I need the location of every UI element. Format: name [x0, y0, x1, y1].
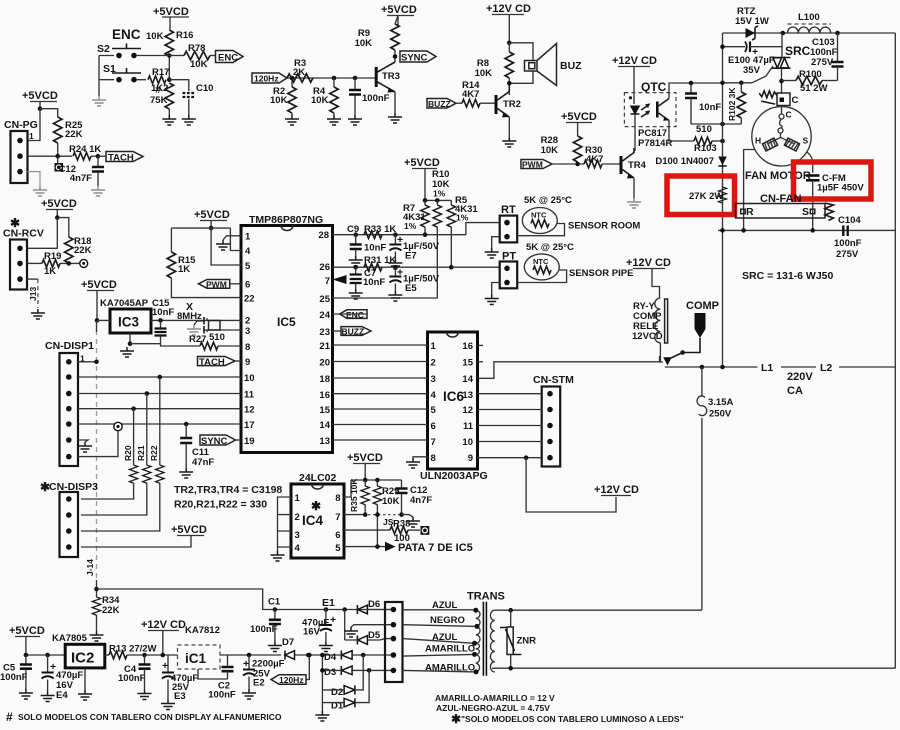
flag ENC (IC5 pin24): [333, 310, 368, 320]
svg-text:275V: 275V: [811, 57, 834, 68]
svg-text:12: 12: [462, 405, 473, 416]
svg-text:26: 26: [319, 262, 330, 273]
svg-text:100nF: 100nF: [250, 624, 278, 635]
capacitor E100 47uF 35V: [723, 42, 783, 77]
resistor R10 (middle): [333, 200, 442, 298]
resistor R2 10K: [270, 76, 296, 115]
svg-text:PATA 7 DE IC5: PATA 7 DE IC5: [398, 542, 473, 554]
test point square (below R25): [55, 156, 64, 171]
svg-text:1%: 1%: [404, 221, 417, 231]
svg-text:11: 11: [463, 421, 474, 432]
diode D100 1N4007 on rail: [655, 156, 726, 167]
ground (C11): [179, 468, 193, 478]
svg-text:R19: R19: [44, 251, 61, 262]
capacitor E7 1uF/50V: [389, 232, 439, 261]
svg-text:3: 3: [431, 374, 436, 385]
svg-text:5: 5: [335, 543, 341, 554]
node COMP wire: [680, 350, 685, 355]
resistor R31 1K: [364, 255, 396, 271]
svg-text:+5VCD: +5VCD: [404, 157, 440, 169]
svg-text:10: 10: [462, 437, 473, 448]
capacitor E5 1uF/50V: [389, 267, 439, 295]
capacitor C2 100nF: [208, 655, 236, 701]
svg-text:R: R: [746, 206, 754, 218]
power +5VCD (IC3): [81, 279, 117, 320]
power +12V CD (opto): [612, 55, 657, 104]
svg-text:19: 19: [244, 436, 255, 447]
+5 rail IC4: [344, 480, 402, 497]
resistor R102 3K (vertical): [727, 83, 746, 124]
right rail vertical: [894, 33, 896, 668]
svg-text:CN-RCV: CN-RCV: [3, 228, 44, 240]
wire row right of IC1: [220, 654, 281, 656]
svg-text:SYNC: SYNC: [201, 436, 228, 447]
ground (100nF): [348, 115, 362, 125]
svg-text:E3: E3: [174, 691, 186, 702]
flag TACH (IC5 pin9): [198, 357, 242, 368]
top rail wire: [723, 32, 896, 34]
LED inside opto: [631, 104, 649, 151]
svg-text:+12V CD: +12V CD: [626, 257, 671, 269]
svg-text:R35 10K: R35 10K: [349, 478, 359, 512]
ground (bridge pin2): [344, 627, 358, 637]
ground (IC5 pin1): [216, 240, 230, 250]
connector CN-FAN: [736, 204, 826, 219]
node +5VCD split: [38, 106, 43, 111]
ground (E2): [242, 689, 256, 699]
svg-text:KA7805: KA7805: [52, 633, 88, 644]
ground (CN-PG pin3): [33, 186, 47, 196]
capacitor C7 10nF: [350, 267, 386, 289]
speaker BUZ: [509, 43, 582, 86]
svg-text:1: 1: [29, 131, 34, 141]
svg-text:IC2: IC2: [71, 650, 94, 667]
svg-text:22K: 22K: [65, 129, 83, 140]
diode D5: [345, 630, 394, 645]
IC U3 box: [110, 309, 151, 333]
capacitor E1 470uF 16V: [302, 607, 336, 641]
svg-text:10nF: 10nF: [363, 277, 385, 288]
capacitor E2 2200uF 25V: [243, 653, 285, 689]
svg-text:1K: 1K: [44, 266, 56, 277]
svg-text:+5VCD: +5VCD: [194, 209, 230, 221]
svg-text:220V: 220V: [787, 371, 813, 383]
svg-text:+5VCD: +5VCD: [347, 452, 383, 464]
svg-text:100nF: 100nF: [0, 672, 28, 683]
svg-text:+5VCD: +5VCD: [381, 4, 417, 16]
connector CN-RCV: [10, 240, 27, 290]
svg-text:8: 8: [431, 453, 436, 464]
wire pin1 to column: [78, 361, 97, 363]
note # SOLO MODELOS: [6, 710, 282, 724]
resistor R17: [148, 67, 169, 94]
capacitor C12 (4n7F): [59, 156, 104, 186]
test point circle (row 17): [114, 422, 122, 430]
IC U4 box: [291, 484, 344, 558]
svg-text:L1: L1: [761, 362, 773, 374]
svg-text:4n7F: 4n7F: [70, 173, 92, 184]
ground (E3): [161, 700, 175, 710]
wire row pin5 (IC5 pin17): [78, 423, 241, 425]
svg-text:4n7F: 4n7F: [410, 495, 432, 506]
capacitor E3 470uF 25V: [162, 655, 198, 702]
svg-text:3: 3: [295, 530, 300, 541]
ground (IC4): [271, 551, 285, 561]
node C1: [273, 607, 278, 612]
svg-text:R22: R22: [149, 445, 159, 461]
fuse 3.15A 250V: [697, 367, 733, 610]
ground (TR4): [627, 198, 641, 208]
ground (switch rail): [92, 96, 106, 106]
node L100 left: [781, 31, 786, 36]
wire R16 to node: [168, 56, 170, 80]
connector CN-PG: [4, 119, 38, 183]
ground (E5): [388, 291, 402, 301]
ground (bridge): [321, 703, 323, 711]
wire 75K to ground: [168, 109, 170, 115]
svg-text:3.15A: 3.15A: [708, 397, 733, 408]
capacitor C5 100nF: [0, 655, 32, 689]
svg-text:D4: D4: [324, 652, 337, 663]
inductor L100: [788, 12, 832, 33]
ground (crystal): [187, 325, 201, 335]
ground (C10): [182, 115, 196, 125]
label CN-DISP3 with asterisk: [40, 480, 98, 494]
IC3 ground stem: [129, 333, 131, 345]
resistor R15 1K: [167, 252, 241, 298]
ground (C4): [138, 690, 152, 700]
capacitor 100nF (TR3 base): [349, 76, 390, 115]
flag 120Hz: [252, 73, 376, 84]
svg-text:R100: R100: [799, 69, 822, 80]
svg-text:1%: 1%: [433, 189, 446, 199]
node L100 right: [835, 31, 840, 36]
node R28/R30: [575, 162, 580, 167]
wire pin3 to ground: [28, 172, 41, 186]
ground (R2): [285, 115, 299, 125]
svg-text:1: 1: [431, 341, 437, 352]
node primary bottom: [508, 666, 513, 671]
ground (C9): [349, 256, 363, 266]
svg-text:D3: D3: [324, 667, 336, 678]
varistor ZNR: [500, 610, 536, 668]
resistor R29 10K: [373, 480, 399, 547]
diode D3: [322, 666, 393, 678]
svg-text:R20: R20: [123, 445, 133, 461]
svg-text:R16: R16: [176, 30, 193, 41]
capacitor C10 (dashed trim): [169, 80, 213, 115]
svg-text:P7814R: P7814R: [638, 138, 672, 149]
svg-text:D100 1N4007: D100 1N4007: [655, 156, 714, 167]
svg-text:AMARILLO: AMARILLO: [425, 644, 475, 655]
connector PT: [500, 262, 518, 289]
svg-text:SENSOR PIPE: SENSOR PIPE: [569, 268, 633, 279]
svg-text:3: 3: [245, 326, 250, 337]
svg-text:R31 1K: R31 1K: [364, 255, 396, 266]
svg-text:D7: D7: [282, 637, 294, 648]
flag PWM (IC5 pin6): [199, 280, 242, 290]
transistor TR4: [620, 148, 647, 198]
wire row pin3 (IC5 pin11): [78, 393, 241, 395]
svg-text:E4: E4: [56, 690, 68, 701]
power +5VCD (CN-DISP3 pin4): [81, 524, 207, 547]
resistor R20: [81, 409, 138, 499]
svg-text:SYNC: SYNC: [401, 53, 428, 64]
svg-text:10nF: 10nF: [699, 102, 721, 113]
svg-text:35V: 35V: [743, 65, 761, 76]
svg-text:10K: 10K: [355, 38, 373, 49]
svg-text:R21: R21: [136, 445, 146, 461]
svg-text:R38: R38: [393, 519, 410, 530]
ground (C12): [91, 186, 105, 196]
ground (E7): [388, 259, 402, 269]
capacitor 10nF (opto): [685, 83, 721, 124]
COMP terminal: [683, 313, 706, 353]
svg-text:120Hz: 120Hz: [279, 675, 304, 685]
resistor R22: [81, 377, 164, 531]
ground (C5): [19, 689, 33, 699]
bridge left vertical: [321, 655, 323, 703]
switch S2: [97, 43, 169, 58]
highlight red box 1 (27K 2W): [667, 176, 735, 215]
capacitor C9: [347, 224, 386, 256]
svg-text:E1: E1: [322, 597, 335, 609]
power +12V CD (buzzer): [486, 3, 531, 43]
resistor R16: [146, 30, 193, 56]
IC4 right pin numbers: [335, 493, 341, 554]
power +12V CD (supply row): [141, 619, 186, 657]
thermistor NTC (room): [517, 208, 564, 236]
svg-text:C: C: [792, 95, 799, 106]
resistor R103 510: [694, 124, 723, 154]
svg-text:275V: 275V: [836, 249, 859, 260]
capacitor C1 100nF: [250, 597, 281, 642]
diode D4: [306, 651, 393, 664]
diode D1: [322, 670, 369, 711]
IC U1 regulator dashed box: [178, 645, 221, 669]
svg-text:BUZZ: BUZZ: [428, 99, 451, 109]
wire row pin4 (IC5 pin12): [78, 408, 241, 410]
svg-text:SOLO MODELOS CON TABLERO CON D: SOLO MODELOS CON TABLERO CON DISPLAY ALF…: [18, 712, 282, 722]
resistor R18: [65, 236, 92, 263]
svg-text:510: 510: [696, 124, 712, 135]
svg-text:+5VCD: +5VCD: [41, 198, 77, 210]
svg-text:+12V CD: +12V CD: [141, 619, 186, 631]
svg-text:S2: S2: [97, 43, 110, 55]
svg-text:+12V CD: +12V CD: [486, 3, 531, 15]
resistor R24: [69, 144, 101, 160]
svg-text:R33 1K: R33 1K: [364, 224, 396, 235]
resistor R14 4K7: [462, 80, 495, 107]
power +5VCD (R7/R10/R5): [404, 157, 440, 200]
wires IC5 to IC6 (7 rows): [333, 345, 428, 440]
svg-text:PWM: PWM: [522, 160, 543, 170]
IC4 left ground rail: [278, 497, 292, 551]
bottom fan rail: [718, 229, 895, 231]
svg-text:17: 17: [244, 420, 255, 431]
svg-text:5K @ 25°C: 5K @ 25°C: [524, 195, 572, 206]
resistor R3 2K: [287, 58, 313, 82]
svg-text:250V: 250V: [709, 409, 732, 420]
svg-text:21: 21: [319, 341, 330, 352]
IC U5 box: [241, 226, 333, 453]
resistor R100 51 2W: [782, 69, 838, 94]
svg-text:IC4: IC4: [302, 513, 324, 528]
svg-text:L2: L2: [820, 362, 832, 374]
diode D7: [282, 637, 340, 660]
svg-text:1: 1: [245, 232, 251, 243]
svg-text:✱: ✱: [311, 499, 321, 513]
IC5 left pin numbers: [244, 232, 255, 448]
power +5VCD (IC4): [347, 452, 383, 480]
ground (PT): [492, 283, 500, 295]
svg-text:+5VCD: +5VCD: [81, 279, 117, 291]
svg-text:14: 14: [319, 420, 330, 431]
svg-text:TR4: TR4: [628, 160, 647, 171]
wire pin6 to ground: [78, 440, 88, 442]
svg-text:47nF: 47nF: [192, 457, 214, 468]
flag PWM: [521, 160, 584, 170]
node R25 bottom: [55, 154, 60, 159]
svg-text:10K: 10K: [146, 31, 164, 42]
crystal X 8MHz: [177, 301, 241, 334]
spring left of C terminal: [759, 91, 777, 104]
svg-text:TRANS: TRANS: [467, 591, 505, 603]
resistor R33 1K: [364, 224, 396, 239]
wire to R25: [28, 109, 58, 141]
IC5 right pin numbers: [318, 230, 330, 447]
svg-text:R103: R103: [694, 143, 717, 154]
thermistor NTC (pipe): [517, 254, 566, 283]
IC1 bottom stem to C2: [198, 669, 228, 679]
svg-text:12: 12: [244, 405, 255, 416]
capacitor C103 100nF 275V: [810, 33, 844, 81]
svg-text:TR2,TR3,TR4 = C3198: TR2,TR3,TR4 = C3198: [174, 484, 282, 496]
svg-text:8: 8: [335, 493, 340, 504]
resistor R8 10K: [475, 43, 514, 95]
capacitor C104: [834, 215, 862, 260]
svg-text:FAN MOTOR: FAN MOTOR: [745, 170, 811, 182]
capacitor C-FM: [806, 173, 864, 230]
svg-text:100nF: 100nF: [834, 238, 862, 249]
wire +5 rail to R15 and pin4/pin5: [171, 228, 241, 265]
svg-text:BUZZ: BUZZ: [342, 327, 365, 337]
svg-text:KA7812: KA7812: [185, 625, 220, 636]
svg-text:1K: 1K: [178, 264, 190, 275]
svg-text:13: 13: [319, 436, 330, 447]
svg-text:16V: 16V: [303, 627, 321, 638]
svg-text:KA7045AP: KA7045AP: [100, 298, 149, 309]
wire D6/D5 vertical: [344, 610, 346, 641]
svg-text:15V 1W: 15V 1W: [735, 16, 769, 27]
node SRC bottom: [779, 79, 784, 84]
wire R34 node to C1 row: [97, 589, 394, 610]
svg-text:IC3: IC3: [118, 315, 140, 330]
resistor 27K 2W on rail: [689, 187, 727, 203]
wire pin2 ground (bridge): [351, 625, 393, 627]
svg-text:J-14: J-14: [85, 559, 95, 576]
IC U2 regulator box: [65, 644, 105, 668]
svg-text:100nF: 100nF: [362, 93, 390, 104]
connector CN-STM: [542, 387, 561, 467]
svg-text:8: 8: [245, 342, 250, 353]
IC6 left pin numbers: [431, 341, 437, 464]
relay contact arrow: [663, 353, 682, 366]
node junction: [167, 53, 172, 58]
node primary top: [508, 608, 513, 613]
svg-text:10K: 10K: [190, 59, 208, 70]
svg-text:1: 1: [295, 493, 301, 504]
svg-text:QTC: QTC: [641, 80, 667, 94]
resistor R27 510: [161, 332, 242, 350]
power +5VCD (R28): [561, 111, 597, 136]
power +5VCD (R9): [381, 4, 417, 27]
flag ENC: [210, 51, 243, 64]
ground (R34): [90, 631, 104, 641]
resistor R38 100: [344, 519, 420, 545]
svg-text:100nF: 100nF: [208, 690, 236, 701]
node R18/R19: [67, 261, 72, 266]
capacitor C4 100nF: [118, 653, 151, 690]
relay coil RY-Y: [632, 298, 668, 362]
connector CN-DISP1: [60, 353, 86, 466]
transformer TRANS: [472, 602, 895, 676]
svg-text:7: 7: [325, 276, 330, 287]
svg-text:11: 11: [244, 390, 255, 401]
label PC817 P7814R: [638, 128, 672, 149]
node S1/R17: [167, 77, 172, 82]
svg-text:PWM: PWM: [206, 280, 227, 290]
IC6 pin16 stub: [478, 344, 484, 346]
svg-text:7: 7: [335, 512, 340, 523]
ground (E1): [319, 642, 333, 652]
diode D2: [322, 655, 363, 698]
svg-text:7: 7: [431, 437, 436, 448]
ground (RT): [492, 237, 500, 248]
ground (E4): [41, 692, 55, 702]
node +5VCD IC5: [209, 226, 214, 231]
svg-text:15: 15: [319, 405, 330, 416]
gate wire row: [723, 82, 753, 84]
triac SRC: [752, 33, 791, 93]
ground (J13): [31, 309, 45, 319]
svg-text:S: S: [802, 206, 809, 218]
wire motor S to C-FM column: [807, 152, 813, 173]
spring right of CN-FAN: [825, 203, 834, 221]
svg-text:TACH: TACH: [199, 357, 225, 368]
svg-text:4K7: 4K7: [586, 154, 603, 165]
ground (TR2): [502, 137, 516, 147]
svg-text:✱: ✱: [451, 712, 461, 726]
wire L1 row: [665, 366, 896, 368]
resistor R19: [28, 251, 81, 277]
svg-text:5: 5: [431, 405, 437, 416]
svg-text:BUZ: BUZ: [560, 60, 582, 72]
svg-text:9: 9: [245, 357, 250, 368]
zener RTZ on rail: [746, 26, 759, 40]
connector CN-DISP3: [60, 492, 79, 557]
svg-text:10K: 10K: [311, 95, 329, 106]
svg-text:10nF: 10nF: [364, 243, 386, 254]
highlight red box 2 (C-FM): [794, 162, 872, 199]
flag BUZZ: [427, 99, 462, 110]
wires IC6 to CN-STM: [478, 394, 542, 458]
svg-text:1%: 1%: [456, 213, 469, 223]
resistor R78: [169, 43, 210, 70]
optocoupler QTC dashed box: [624, 93, 676, 127]
wire column to R34: [96, 580, 98, 597]
node R8 top: [507, 41, 512, 46]
